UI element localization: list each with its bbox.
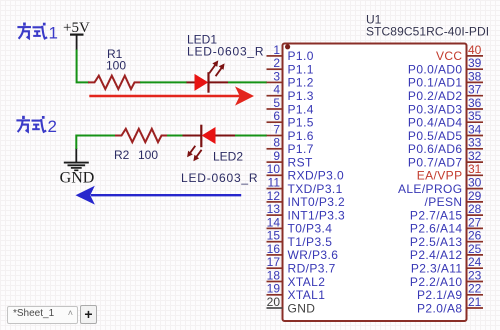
svg-text:P1.1: P1.1 <box>288 63 314 77</box>
svg-text:26: 26 <box>468 229 482 243</box>
sheet tab bar <box>6 305 8 307</box>
svg-text:32: 32 <box>468 149 482 163</box>
svg-text:29: 29 <box>468 189 482 203</box>
pin 17 RD/P3.7 (left) <box>267 255 336 275</box>
svg-text:5: 5 <box>273 96 280 110</box>
svg-text:3: 3 <box>273 69 280 83</box>
svg-text:P0.7/AD7: P0.7/AD7 <box>408 155 463 169</box>
svg-text:16: 16 <box>267 242 281 256</box>
svg-text:33: 33 <box>468 136 482 150</box>
wire LED2 to pin 7 <box>235 135 267 137</box>
label 方式1 (mode 1) <box>17 23 58 43</box>
pin 22 P2.1/A9 (right) <box>417 282 483 302</box>
svg-text:P2.2/A10: P2.2/A10 <box>410 275 463 289</box>
pin 30 ALE/PROG (right) <box>398 176 483 196</box>
wire +5V to R1 <box>77 50 89 83</box>
pin 32 P0.7/AD7 (right) <box>408 149 483 169</box>
pin 10 RXD/P3.0 (left) <box>267 162 345 182</box>
svg-text:9: 9 <box>273 149 280 163</box>
resistor R1 <box>88 76 141 89</box>
pin 31 EA/VPP (right) <box>417 162 483 182</box>
add-sheet button <box>80 305 97 324</box>
pin 39 P0.0/AD0 (right) <box>408 56 483 76</box>
svg-text:T1/P3.5: T1/P3.5 <box>288 235 333 249</box>
svg-text:39: 39 <box>468 56 482 70</box>
tab Sheet_1 <box>7 306 78 324</box>
pin 36 P0.3/AD3 (right) <box>408 96 483 116</box>
svg-text:23: 23 <box>468 268 482 282</box>
svg-text:13: 13 <box>267 202 281 216</box>
svg-text:GND: GND <box>288 301 316 315</box>
svg-text:WR/P3.6: WR/P3.6 <box>288 248 339 262</box>
svg-text:24: 24 <box>468 255 482 269</box>
svg-text:36: 36 <box>468 96 482 110</box>
svg-text:P0.1/AD1: P0.1/AD1 <box>408 76 463 90</box>
pin 1 P1.0 (left) <box>267 43 314 63</box>
pin 13 INT1/P3.3 (left) <box>267 202 346 222</box>
svg-text:LED2: LED2 <box>213 150 243 164</box>
pin 21 P2.0/A8 (right) <box>417 295 483 315</box>
svg-text:EA/VPP: EA/VPP <box>417 169 463 183</box>
svg-text:P1.6: P1.6 <box>288 129 314 143</box>
svg-text:P0.2/AD2: P0.2/AD2 <box>408 89 463 103</box>
svg-text:2: 2 <box>48 117 57 136</box>
pin 29 /PESN (right) <box>424 189 483 209</box>
svg-text:RST: RST <box>288 155 313 169</box>
svg-text:P1.2: P1.2 <box>288 76 314 90</box>
svg-text:P0.3/AD3: P0.3/AD3 <box>408 102 463 116</box>
svg-text:RD/P3.7: RD/P3.7 <box>288 262 336 276</box>
svg-text:P1.4: P1.4 <box>288 102 314 116</box>
svg-text:100: 100 <box>106 59 126 73</box>
svg-text:INT1/P3.3: INT1/P3.3 <box>288 208 346 222</box>
svg-text:P1.3: P1.3 <box>288 89 314 103</box>
svg-text:R2: R2 <box>114 148 130 162</box>
svg-text:T0/P3.4: T0/P3.4 <box>288 222 333 236</box>
svg-text:1: 1 <box>49 24 58 43</box>
svg-text:P0.4/AD4: P0.4/AD4 <box>408 116 463 130</box>
svg-text:15: 15 <box>267 229 281 243</box>
svg-text:21: 21 <box>468 295 482 309</box>
power +5V <box>63 20 90 50</box>
LED D1 (LED1) <box>187 60 229 92</box>
svg-text:STC89C51RC-40I-PDI: STC89C51RC-40I-PDI <box>366 25 489 39</box>
svg-text:P1.0: P1.0 <box>288 49 314 63</box>
pin 40 VCC (right) <box>436 43 483 63</box>
label 方式2 (mode 2) <box>16 116 57 136</box>
svg-text:2: 2 <box>273 56 280 70</box>
svg-text:12: 12 <box>267 189 281 203</box>
pin 14 T0/P3.4 (left) <box>267 215 333 235</box>
pin 16 WR/P3.6 (left) <box>267 242 339 262</box>
svg-text:GND: GND <box>60 170 95 187</box>
svg-text:28: 28 <box>468 202 482 216</box>
svg-text:P2.5/A13: P2.5/A13 <box>410 235 463 249</box>
pin 19 XTAL1 (left) <box>267 282 326 302</box>
svg-text:14: 14 <box>267 215 281 229</box>
pin 18 XTAL2 (left) <box>267 268 326 288</box>
pin 35 P0.4/AD4 (right) <box>408 109 483 129</box>
svg-text:20: 20 <box>267 295 281 309</box>
svg-text:100: 100 <box>138 148 158 162</box>
wire GND to R2 <box>76 136 116 150</box>
svg-text:30: 30 <box>468 176 482 190</box>
pin 37 P0.2/AD2 (right) <box>408 83 483 103</box>
svg-text:VCC: VCC <box>436 49 463 63</box>
svg-text:22: 22 <box>468 282 482 296</box>
op: IC U1 body <box>283 44 467 322</box>
pin 6 P1.5 (left) <box>267 109 314 129</box>
pin 9 RST (left) <box>267 149 313 169</box>
svg-text:7: 7 <box>273 122 280 136</box>
svg-text:25: 25 <box>468 242 482 256</box>
pin 20 GND (left) <box>267 295 316 315</box>
ground GND <box>60 148 95 187</box>
svg-text:4: 4 <box>273 83 280 97</box>
svg-text:/PESN: /PESN <box>424 195 462 209</box>
svg-text:35: 35 <box>468 109 482 123</box>
wire R1 to LED1 <box>140 81 187 83</box>
resistor R2 <box>115 129 168 142</box>
svg-text:P1.5: P1.5 <box>288 116 314 130</box>
svg-text:P0.6/AD6: P0.6/AD6 <box>408 142 463 156</box>
svg-text:34: 34 <box>468 122 482 136</box>
svg-text:10: 10 <box>267 162 281 176</box>
LED D2 (LED2, mirrored pointing left) <box>183 125 236 162</box>
svg-text:P0.5/AD5: P0.5/AD5 <box>408 129 463 143</box>
svg-text:P1.7: P1.7 <box>288 142 314 156</box>
pin 25 P2.4/A12 (right) <box>410 242 483 262</box>
svg-text:6: 6 <box>273 109 280 123</box>
svg-text:11: 11 <box>268 176 281 190</box>
svg-text:P2.4/A12: P2.4/A12 <box>410 248 463 262</box>
svg-text:INT0/P3.2: INT0/P3.2 <box>288 195 346 209</box>
wire R2 to LED2 <box>167 135 183 137</box>
svg-text:ALE/PROG: ALE/PROG <box>398 182 463 196</box>
pin 28 P2.7/A15 (right) <box>410 202 483 222</box>
svg-text:P2.6/A14: P2.6/A14 <box>410 222 463 236</box>
svg-text:P2.1/A9: P2.1/A9 <box>417 288 463 302</box>
svg-text:P2.0/A8: P2.0/A8 <box>417 301 463 315</box>
pin 2 P1.1 (left) <box>267 56 314 76</box>
svg-text:LED-0603_R: LED-0603_R <box>187 45 264 59</box>
svg-text:XTAL1: XTAL1 <box>288 288 326 302</box>
svg-text:P0.0/AD0: P0.0/AD0 <box>408 63 463 77</box>
pin 3 P1.2 (left) <box>267 69 314 89</box>
pin 4 P1.3 (left) <box>267 83 314 103</box>
svg-text:1: 1 <box>273 43 280 57</box>
svg-text:37: 37 <box>468 83 482 97</box>
wire LED1 to pin 3 <box>228 81 267 83</box>
pin 24 P2.3/A11 (right) <box>411 255 483 275</box>
pin 38 P0.1/AD1 (right) <box>408 69 483 89</box>
pin 12 INT0/P3.2 (left) <box>267 189 346 209</box>
svg-text:RXD/P3.0: RXD/P3.0 <box>288 169 345 183</box>
pin 34 P0.5/AD5 (right) <box>408 122 483 142</box>
svg-text:XTAL2: XTAL2 <box>288 275 326 289</box>
svg-text:38: 38 <box>468 69 482 83</box>
svg-text:P2.7/A15: P2.7/A15 <box>410 208 463 222</box>
pin 26 P2.5/A13 (right) <box>410 229 483 249</box>
svg-text:27: 27 <box>468 215 482 229</box>
pin 8 P1.7 (left) <box>267 136 314 156</box>
pin 23 P2.2/A10 (right) <box>410 268 483 288</box>
svg-text:LED-0603_R: LED-0603_R <box>181 171 258 185</box>
svg-text:17: 17 <box>267 255 281 269</box>
annotation arrow (mode 2, blue, pointing left) <box>76 186 242 205</box>
pin 7 P1.6 (left) <box>267 122 314 142</box>
annotation arrow (mode 1, red, pointing right) <box>89 86 254 105</box>
svg-text:31: 31 <box>468 162 482 176</box>
svg-text:P2.3/A11: P2.3/A11 <box>411 262 463 276</box>
pin 15 T1/P3.5 (left) <box>267 229 333 249</box>
pin 33 P0.6/AD6 (right) <box>408 136 483 156</box>
pin 11 TXD/P3.1 (left) <box>267 176 343 196</box>
svg-text:TXD/P3.1: TXD/P3.1 <box>288 182 343 196</box>
svg-text:19: 19 <box>267 282 281 296</box>
pin 1 marker dot <box>285 44 290 49</box>
pin 27 P2.6/A14 (right) <box>410 215 483 235</box>
svg-text:8: 8 <box>273 136 280 150</box>
pin 5 P1.4 (left) <box>267 96 314 116</box>
svg-text:18: 18 <box>267 268 281 282</box>
svg-text:40: 40 <box>468 43 482 57</box>
